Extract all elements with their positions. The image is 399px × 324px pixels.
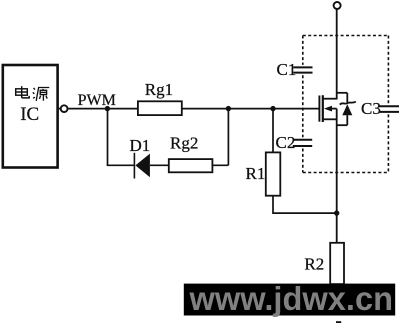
node R1 junction	[270, 106, 275, 111]
svg-text:Rg1: Rg1	[145, 80, 173, 99]
wire branch up to rail	[227, 109, 229, 166]
resistor Rg2	[169, 159, 213, 172]
capacitor C3	[379, 106, 399, 112]
power IC box	[3, 65, 58, 168]
ground stub below bar	[336, 321, 341, 323]
watermark bar	[184, 284, 395, 316]
resistor R2	[330, 243, 344, 284]
terminal PWM output	[61, 105, 68, 112]
wire lower branch	[107, 164, 135, 166]
package outline dashed (bottom)	[303, 172, 389, 174]
wire PWM junction down	[107, 109, 109, 166]
capacitor C1	[293, 67, 312, 72]
node source junction	[334, 210, 339, 215]
wire D1 to Rg2	[150, 164, 170, 166]
label 电	[16, 86, 30, 98]
transistor Q1 (MOSFET)	[319, 93, 347, 122]
wire drain from top terminal	[336, 9, 338, 99]
body diode of Q1	[337, 93, 356, 125]
capacitor C2	[293, 140, 312, 146]
terminal drain top	[334, 2, 341, 9]
package outline dashed (top)	[303, 35, 389, 37]
svg-text:PWM: PWM	[78, 92, 116, 109]
wire R2 bottom lead	[336, 284, 338, 300]
package outline dashed (left, gaps at C1 and C2)	[302, 36, 304, 65]
wire Rg2 to branch corner	[211, 164, 228, 166]
diode D1	[134, 153, 150, 179]
svg-text:C1: C1	[277, 60, 297, 79]
wire R1 top lead	[272, 109, 274, 153]
svg-text:www.jdwx.cn: www.jdwx.cn	[189, 280, 393, 317]
svg-text:C2: C2	[276, 133, 296, 152]
package outline dashed (right, gap at C3)	[387, 36, 389, 104]
wire gate rail	[58, 108, 319, 110]
node PWM junction	[105, 106, 110, 111]
node branch junction	[226, 106, 231, 111]
wire R1 bottom lead	[273, 196, 337, 213]
wire source vertical	[336, 109, 338, 243]
svg-text:C3: C3	[361, 99, 381, 118]
resistor R1	[266, 152, 281, 195]
svg-text:R1: R1	[246, 164, 266, 183]
svg-text:R2: R2	[304, 254, 324, 273]
svg-text:D1: D1	[130, 136, 151, 155]
svg-text:Rg2: Rg2	[170, 134, 198, 153]
svg-text:IC: IC	[20, 104, 39, 125]
resistor Rg1	[138, 101, 182, 115]
label 源	[33, 88, 50, 101]
